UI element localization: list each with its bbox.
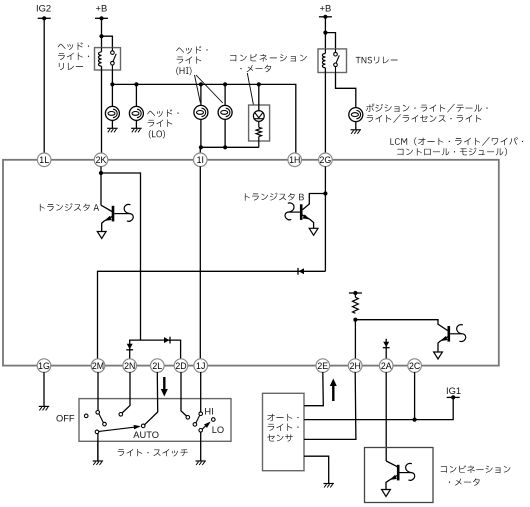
HI bulb 2 (218, 105, 232, 119)
wire 2H to sensor (304, 372, 356, 439)
supply tick (349, 292, 362, 294)
wire LO bulb1 to ground (111, 120, 113, 128)
wire 2L to switch (145, 372, 158, 425)
wire 1I to 1J (199, 166, 201, 359)
svg-text:2K: 2K (96, 155, 107, 165)
label combination meter (top) (230, 54, 307, 62)
meter resistor (258, 121, 260, 127)
switch blade 2M (99, 414, 104, 423)
wire +B to TNS relay (324, 17, 326, 49)
diode to 2D (164, 337, 169, 343)
svg-text:+B: +B (320, 3, 332, 14)
label transistor A (40, 203, 99, 211)
ground switch right (196, 460, 206, 462)
TNS relay coil (324, 49, 326, 54)
wire 2K to diode column (101, 173, 141, 340)
LCM module box (3, 160, 499, 366)
node HI2 join (223, 145, 227, 149)
node feed HI2 (223, 82, 227, 86)
arrow up 2E (332, 386, 334, 401)
node feed LO2 (134, 82, 138, 86)
wire relay coil to 2K (101, 70, 103, 153)
connector 2N (123, 359, 137, 373)
node feed meter (257, 82, 261, 86)
transistor B (303, 194, 326, 210)
node 2K branch (99, 171, 103, 175)
label LCM (390, 137, 523, 145)
TNS relay switch (334, 52, 338, 56)
switch contact mid-left (103, 422, 107, 426)
svg-text:IG1: IG1 (446, 385, 461, 396)
connector 1G (37, 359, 51, 373)
svg-text:LO: LO (212, 425, 224, 435)
feed line (112, 84, 295, 153)
svg-text:1G: 1G (38, 361, 50, 371)
relay coil (101, 48, 103, 52)
svg-text:OFF: OFF (56, 413, 75, 423)
svg-text:2E: 2E (317, 361, 328, 371)
wire HI bulb1 down (200, 119, 202, 147)
wire to LO bulb 1 (111, 84, 113, 106)
switch ground contact right (199, 429, 203, 433)
switch OFF contact (84, 414, 88, 418)
combination meter box (top) (249, 105, 270, 141)
diode stub to 2A (385, 339, 387, 360)
label transistor B (245, 193, 304, 201)
diode on sense line (299, 268, 304, 274)
ground position light (351, 129, 361, 131)
wire switch right to ground (200, 432, 202, 461)
high-beam indicator lamp (253, 111, 264, 122)
label auto light sensor (267, 414, 298, 421)
auto light sensor box (263, 393, 305, 470)
connector 1J (194, 359, 208, 373)
label headlight relay (58, 42, 89, 50)
connector 2L (151, 359, 165, 373)
headlight relay box (95, 48, 121, 70)
wire 2N to switch (122, 372, 130, 413)
transistor C (448, 326, 451, 342)
connector 2A (379, 359, 393, 373)
ground LO bulb 1 (107, 127, 117, 129)
ground transistor D (382, 490, 391, 497)
label TNS relay (356, 57, 398, 64)
svg-text:2D: 2D (175, 361, 186, 371)
wire IG2 to 1L (43, 18, 45, 153)
switch blade HI (196, 415, 200, 423)
svg-text:2G: 2G (320, 155, 332, 165)
ground switch left (93, 460, 103, 462)
switch 2D contact (186, 416, 190, 420)
wire feed to meter (258, 84, 260, 110)
connector 2M (91, 359, 105, 373)
position light bulb (349, 108, 363, 122)
wire switch left to ground (97, 434, 99, 461)
light switch box (79, 399, 231, 442)
node +B TNS branch (323, 30, 327, 34)
label headlight HI (176, 46, 207, 54)
ground transistor C (434, 352, 443, 359)
node 2C join (413, 418, 417, 422)
connector 2D (174, 359, 188, 373)
wire 1J to switch (200, 372, 202, 412)
svg-text:IG2: IG2 (36, 3, 51, 14)
wire HI bulb2 down (224, 119, 226, 147)
label combination meter (bottom) (441, 465, 511, 473)
LO bulb 1 (105, 106, 119, 120)
switch LO contact (212, 418, 216, 422)
diode line (130, 340, 181, 359)
ground 1G (39, 405, 49, 407)
relay switch (111, 51, 115, 55)
svg-text:2L: 2L (152, 361, 162, 371)
wire 1G to ground (43, 372, 45, 406)
diode 2A (383, 342, 389, 347)
ground LO bulb 2 (131, 127, 141, 129)
wire 2M sense line (98, 271, 326, 359)
wire to TNS switch (325, 33, 335, 49)
wire IG1 line (304, 397, 453, 419)
svg-text:2N: 2N (124, 361, 135, 371)
switch AUTO contact (141, 424, 145, 428)
wire TNS switch to position light (336, 73, 356, 108)
HI bulb 1 (194, 105, 208, 119)
svg-text:2A: 2A (381, 361, 392, 371)
switch blade AUTO (99, 427, 138, 432)
label light switch (118, 449, 188, 457)
wire sensor ground (304, 456, 329, 483)
wire position light to ground (355, 122, 357, 130)
svg-text:2H: 2H (350, 361, 361, 371)
node +B branch (99, 34, 103, 38)
connector 2H (348, 359, 362, 373)
wire to LO bulb 2 (135, 84, 137, 106)
wire 2K down (100, 166, 102, 205)
switch 2N contact (119, 413, 123, 417)
wire to HI bulb 2 (224, 84, 226, 106)
ground sensor (324, 483, 334, 485)
connector 1L (37, 153, 51, 167)
ground transistor A (97, 232, 106, 239)
LO bulb 2 (129, 106, 143, 120)
leader HI to bulb2 (196, 75, 223, 103)
transistor A (101, 205, 112, 211)
leader HI to bulb1 (195, 75, 201, 103)
wire relay switch to feed line (111, 70, 113, 84)
connector 2C (408, 359, 422, 373)
TNS relay box (318, 49, 347, 73)
wire 2M to switch (97, 372, 99, 411)
svg-text:1J: 1J (196, 361, 205, 371)
ground transistor B (309, 228, 318, 235)
svg-text:2C: 2C (409, 361, 421, 371)
wire to HI bulb 1 (200, 84, 202, 106)
connector 1I (194, 153, 208, 167)
leader combination meter (247, 73, 253, 105)
wire to relay switch (102, 36, 113, 47)
node transistor B collector (323, 191, 327, 195)
wire resistor to 2H (354, 320, 356, 360)
switch 2M contact (96, 411, 100, 415)
connector 2K (94, 153, 108, 167)
connector 1H (288, 153, 302, 167)
switch ground contact left (95, 430, 99, 434)
switch HI contact (199, 412, 203, 416)
wire sensor to 2E (304, 372, 323, 406)
label headlight LO (147, 109, 178, 117)
transistor D (386, 461, 397, 467)
combination meter box (bottom) (365, 448, 434, 503)
connector 2G (319, 153, 333, 167)
node HI1 join (199, 145, 203, 149)
svg-text:+B: +B (96, 3, 108, 14)
wire HI bulbs to 1I (200, 147, 258, 153)
switch blade LO (202, 423, 208, 429)
node resistor bottom (353, 318, 357, 322)
svg-text:HI: HI (204, 406, 213, 416)
wire +B to relay junction (101, 18, 103, 47)
wire 2C down (414, 372, 416, 420)
node feed HI1 (199, 82, 203, 86)
svg-text:1H: 1H (289, 155, 300, 165)
wire 2D to switch (181, 372, 187, 416)
wire 2A to meter (385, 372, 387, 461)
label position light (366, 104, 488, 113)
svg-text:2M: 2M (92, 361, 104, 371)
diode to 2N (127, 344, 133, 349)
wire LO bulb2 to ground (135, 120, 137, 128)
connector 2E (316, 359, 330, 373)
arrow down 2L (163, 377, 165, 391)
svg-text:AUTO: AUTO (133, 430, 159, 440)
wire to transistor C (355, 320, 447, 331)
svg-text:1L: 1L (39, 155, 49, 165)
wire TNS coil to 2G (324, 73, 326, 154)
resistor 2H (354, 293, 356, 297)
switch contact mid-right (193, 423, 197, 427)
wire 2G down (324, 166, 326, 271)
node feed LO1 (110, 82, 114, 86)
svg-text:1I: 1I (197, 155, 204, 165)
